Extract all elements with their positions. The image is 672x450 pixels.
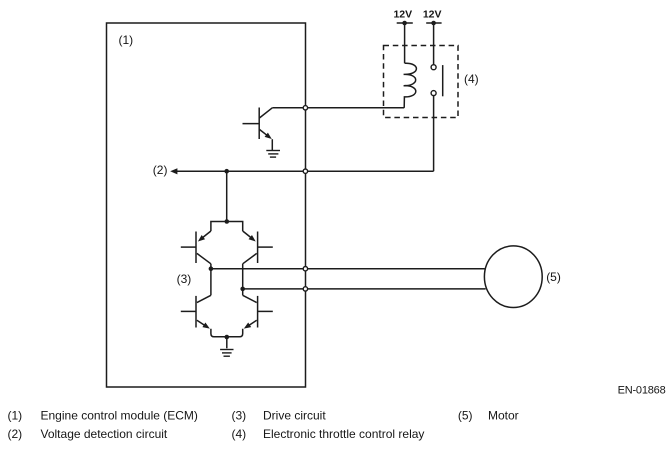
wire H-bridge right column [242,264,244,296]
transistor Q3 emitter arrowhead [249,235,256,242]
wire bottom node to ground [226,337,228,348]
transistor Q1 collector lead [259,108,272,118]
svg-text:12V: 12V [423,8,442,20]
wire output A to motor [211,268,485,270]
transistor Q3 emitter lead [243,231,252,239]
relay coil L1 [404,63,417,108]
junction dot output A [209,266,214,271]
wire Q5 emitter to center [227,329,243,337]
svg-text:(3): (3) [177,272,192,286]
transistor Q4 bar [195,296,197,328]
transistor Q5 collector lead [243,295,257,302]
transistor Q5 emitter lead [249,320,257,325]
transistor Q3 collector lead [243,253,257,263]
wire output B to motor [243,288,486,290]
terminal T1 on ECM edge [303,106,307,110]
transistor Q4 base lead [181,310,196,312]
transistor Q1 emitter lead [259,129,267,135]
relay dashed enclosure K1 [384,46,459,118]
transistor Q2 emitter lead [202,231,211,239]
svg-text:Engine control module (ECM): Engine control module (ECM) [41,408,198,422]
svg-text:(2): (2) [153,163,168,177]
transistor Q2 emitter arrowhead [198,235,205,242]
svg-text:(1): (1) [8,408,23,422]
transistor Q5 emitter arrowhead [244,323,251,329]
motor M circle [484,246,542,308]
wire Q4 emitter to center [211,329,227,337]
transistor Q5 bar [257,296,259,328]
svg-text:(2): (2) [8,427,23,441]
svg-text:(4): (4) [232,427,247,441]
transistor Q1 emitter arrowhead [265,133,272,139]
transistor Q2 base lead [181,246,196,248]
transistor Q1 base lead [243,123,260,125]
ground G2 [220,350,233,357]
terminal T4 on ECM edge [303,287,307,291]
wire relay switch output down to node 2 line [433,96,435,171]
supply tick left [397,22,413,24]
wire node 2 down to H-bridge [226,171,228,221]
wire 12V left to relay coil [404,23,406,63]
transistor Q2 bar [195,232,197,264]
wire node 2 horizontal (voltage detection line) [177,170,434,172]
relay contact lower [431,91,436,96]
transistor Q4 collector lead [197,295,211,302]
wire Q1 collector to relay coil [272,107,404,109]
wire H-bridge top rail [211,222,243,232]
svg-text:(5): (5) [546,270,561,284]
svg-text:(4): (4) [464,72,479,86]
ground G1 [266,151,280,158]
svg-text:(1): (1) [119,33,134,47]
svg-text:Electronic throttle control re: Electronic throttle control relay [263,427,424,441]
junction dot output B [240,287,245,292]
terminal T2 on ECM edge [303,169,307,173]
svg-text:EN-01868: EN-01868 [618,385,666,397]
transistor Q3 bar [257,232,259,264]
relay contact upper [431,65,436,70]
transistor Q4 emitter arrowhead [202,323,209,329]
wire Q1 emitter to ground [271,139,273,150]
ECM box U1 (engine control module) [107,23,306,387]
junction dot H-bridge top [225,219,230,224]
wire 12V right to relay contact [433,23,435,65]
svg-text:Drive circuit: Drive circuit [263,408,326,422]
transistor Q2 collector lead [197,253,211,263]
transistor Q3 base lead [258,246,273,248]
svg-text:(3): (3) [232,408,247,422]
supply dot left [402,21,407,26]
transistor Q4 emitter lead [197,320,205,325]
supply dot right [431,21,436,26]
transistor Q1 bar [258,108,260,140]
arrowhead node 2 [170,168,177,174]
junction dot node 2 [224,169,229,174]
svg-text:Voltage detection circuit: Voltage detection circuit [41,427,168,441]
svg-text:12V: 12V [393,8,412,20]
svg-text:Motor: Motor [488,408,519,422]
supply tick right [426,22,441,24]
svg-text:(5): (5) [458,408,473,422]
junction dot H-bridge bottom [225,335,230,340]
wire H-bridge left column [210,264,212,296]
terminal T3 on ECM edge [303,267,307,271]
transistor Q5 base lead [258,310,273,312]
relay switch bar [442,65,444,96]
